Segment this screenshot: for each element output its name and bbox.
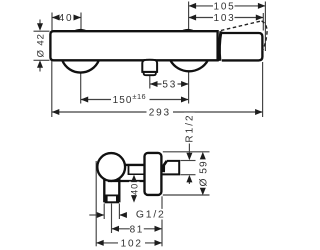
- svg-text:R1/2: R1/2: [185, 113, 196, 142]
- svg-text:Ø 59: Ø 59: [199, 160, 210, 186]
- svg-text:40: 40: [130, 183, 140, 195]
- svg-text:102: 102: [121, 239, 143, 250]
- svg-text:Ø 42: Ø 42: [35, 33, 46, 57]
- svg-text:±16: ±16: [132, 92, 146, 101]
- svg-text:103: 103: [213, 13, 235, 24]
- svg-text:81: 81: [130, 224, 144, 235]
- svg-text:105: 105: [213, 2, 235, 13]
- svg-text:293: 293: [149, 108, 171, 119]
- svg-text:150: 150: [113, 95, 133, 106]
- svg-text:G1/2: G1/2: [136, 209, 166, 220]
- svg-text:40: 40: [59, 13, 74, 24]
- svg-text:53: 53: [162, 80, 177, 91]
